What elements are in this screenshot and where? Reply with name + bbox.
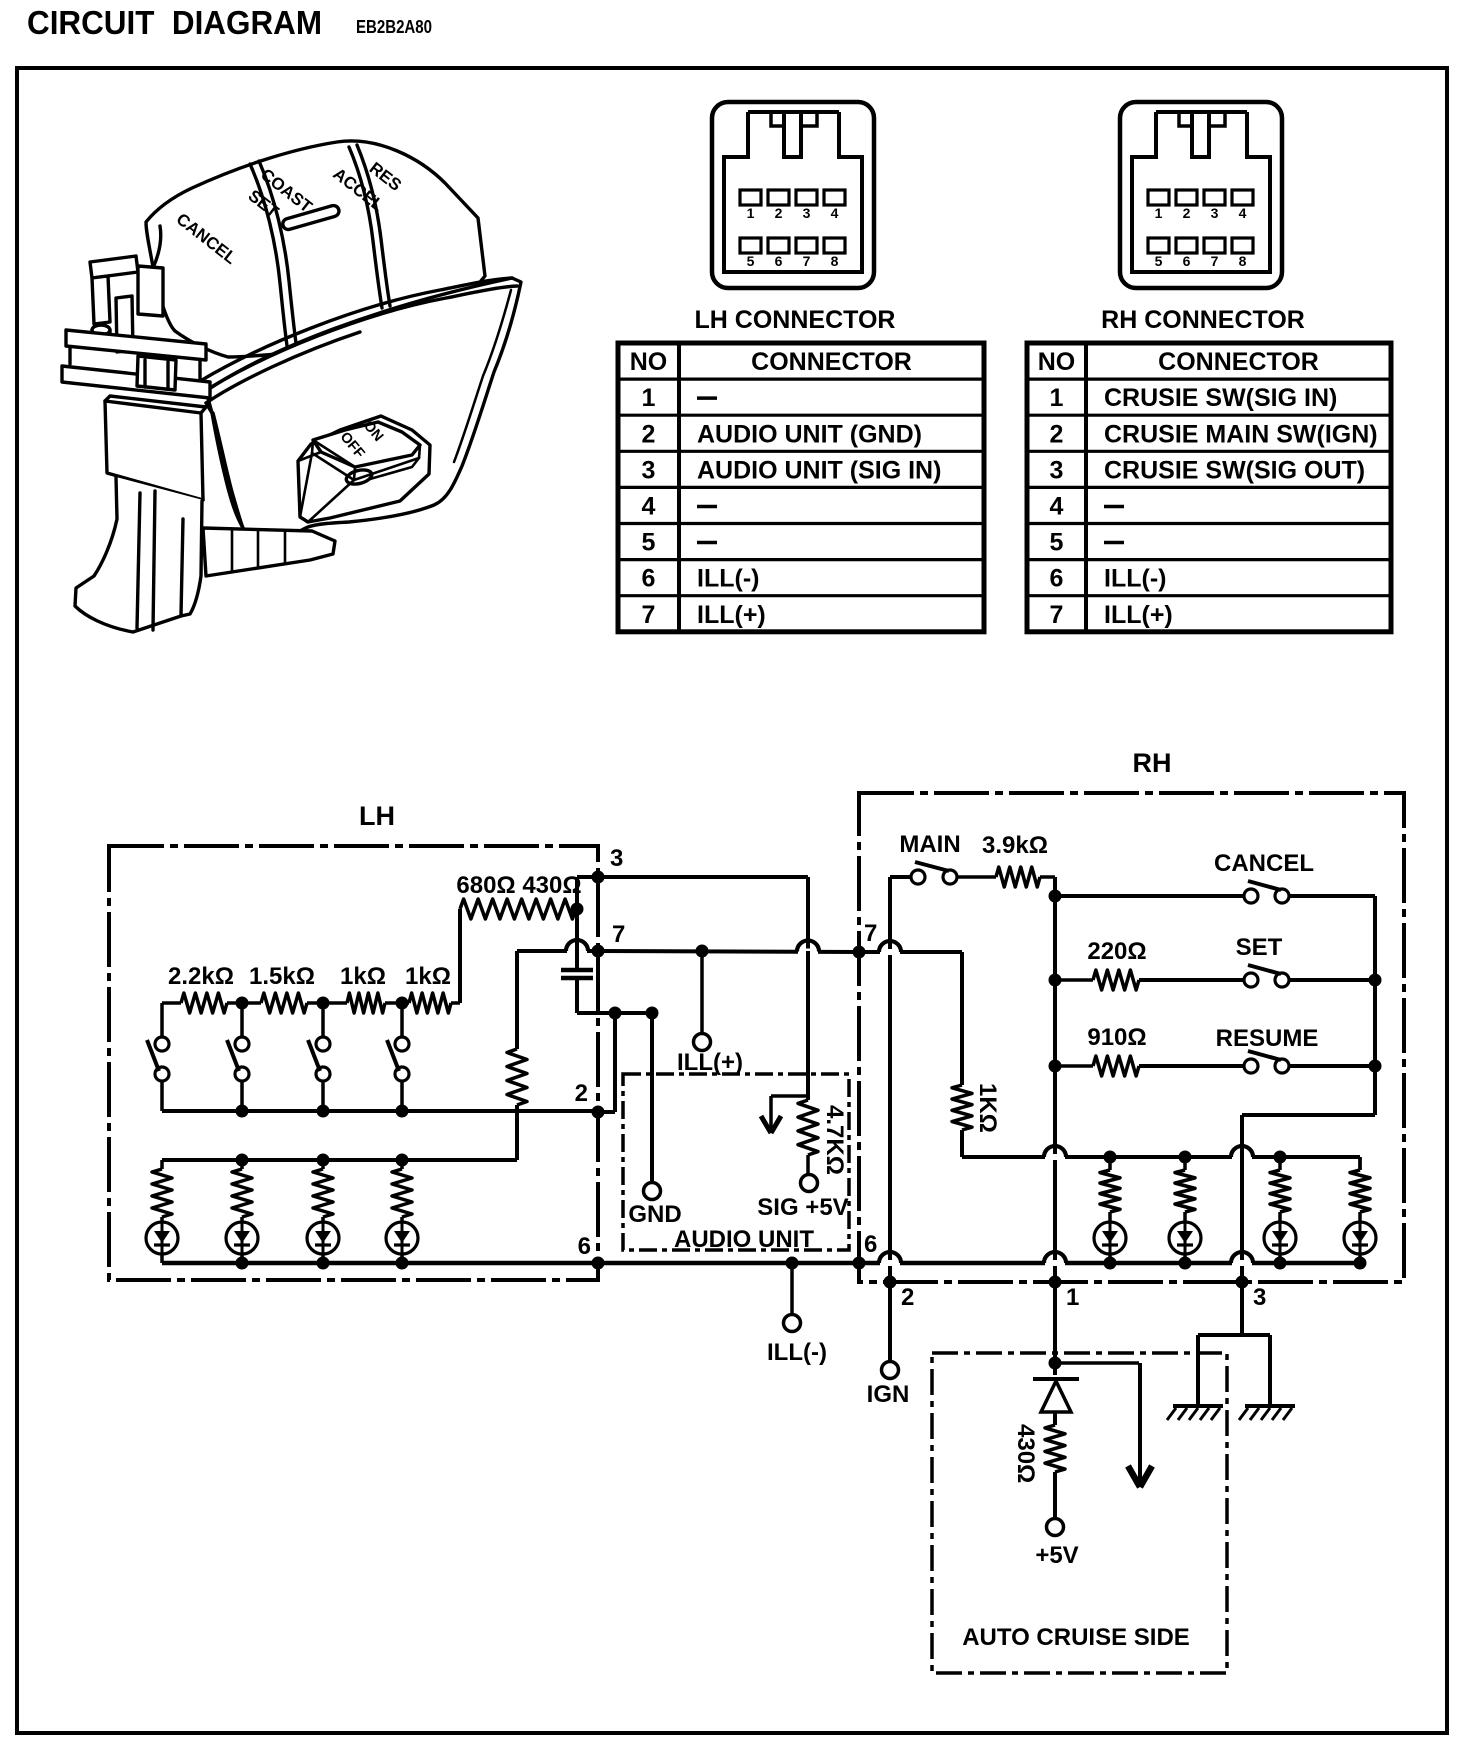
- svg-text:5: 5: [1155, 253, 1163, 269]
- svg-text:680Ω 430Ω: 680Ω 430Ω: [456, 872, 581, 899]
- svg-text:LH: LH: [359, 801, 395, 831]
- svg-text:6: 6: [1050, 565, 1064, 593]
- svg-text:4: 4: [642, 492, 656, 520]
- svg-text:SIG +5V: SIG +5V: [757, 1194, 848, 1221]
- svg-text:8: 8: [831, 253, 839, 269]
- svg-text:+5V: +5V: [1035, 1542, 1078, 1569]
- svg-text:1KΩ: 1KΩ: [974, 1083, 1001, 1133]
- svg-text:6: 6: [775, 253, 783, 269]
- svg-text:5: 5: [642, 529, 656, 557]
- svg-text:CIRCUIT DIAGRAM: CIRCUIT DIAGRAM: [27, 4, 322, 41]
- svg-text:3: 3: [1211, 205, 1219, 221]
- svg-text:2: 2: [642, 420, 656, 448]
- svg-text:CRUSIE SW(SIG IN): CRUSIE SW(SIG IN): [1104, 384, 1337, 412]
- svg-text:NO: NO: [1038, 348, 1076, 376]
- svg-text:7: 7: [612, 921, 625, 948]
- svg-text:3: 3: [1050, 456, 1064, 484]
- svg-text:430Ω: 430Ω: [1012, 1424, 1039, 1483]
- svg-text:ILL(+): ILL(+): [697, 601, 766, 629]
- svg-text:RH CONNECTOR: RH CONNECTOR: [1101, 306, 1305, 334]
- svg-text:2: 2: [1183, 205, 1191, 221]
- svg-text:220Ω: 220Ω: [1087, 938, 1146, 965]
- svg-text:7: 7: [864, 920, 877, 947]
- svg-text:ILL(-): ILL(-): [697, 565, 759, 593]
- svg-text:AUDIO UNIT: AUDIO UNIT: [674, 1226, 814, 1253]
- svg-text:MAIN: MAIN: [899, 831, 960, 858]
- svg-text:1kΩ: 1kΩ: [340, 963, 386, 990]
- svg-text:1: 1: [1066, 1284, 1079, 1311]
- svg-text:AUDIO UNIT (GND): AUDIO UNIT (GND): [697, 420, 922, 448]
- svg-text:AUTO CRUISE SIDE: AUTO CRUISE SIDE: [962, 1624, 1190, 1651]
- svg-text:GND: GND: [628, 1201, 681, 1228]
- svg-text:7: 7: [803, 253, 811, 269]
- svg-text:1.5kΩ: 1.5kΩ: [249, 963, 315, 990]
- svg-text:6: 6: [578, 1233, 591, 1260]
- svg-text:3: 3: [1253, 1284, 1266, 1311]
- svg-text:ILL(-): ILL(-): [767, 1339, 827, 1366]
- svg-text:4: 4: [831, 205, 839, 221]
- svg-text:ILL(+): ILL(+): [1104, 601, 1173, 629]
- svg-text:CONNECTOR: CONNECTOR: [1158, 348, 1319, 376]
- svg-text:2: 2: [901, 1284, 914, 1311]
- svg-text:2: 2: [775, 205, 783, 221]
- svg-text:1: 1: [747, 205, 755, 221]
- svg-text:CRUSIE MAIN SW(IGN): CRUSIE MAIN SW(IGN): [1104, 420, 1378, 448]
- svg-text:4.7KΩ: 4.7KΩ: [821, 1105, 848, 1175]
- svg-text:5: 5: [747, 253, 755, 269]
- svg-text:1: 1: [642, 384, 656, 412]
- svg-text:LH CONNECTOR: LH CONNECTOR: [695, 306, 896, 334]
- svg-text:EB2B2A80: EB2B2A80: [356, 17, 432, 37]
- svg-text:3.9kΩ: 3.9kΩ: [982, 832, 1048, 859]
- svg-text:1: 1: [1155, 205, 1163, 221]
- svg-text:2.2kΩ: 2.2kΩ: [168, 963, 234, 990]
- svg-text:5: 5: [1050, 529, 1064, 557]
- svg-text:CRUSIE SW(SIG OUT): CRUSIE SW(SIG OUT): [1104, 456, 1365, 484]
- svg-text:6: 6: [1183, 253, 1191, 269]
- svg-text:SET: SET: [1236, 934, 1283, 961]
- svg-text:7: 7: [1211, 253, 1219, 269]
- svg-text:CANCEL: CANCEL: [1214, 850, 1314, 877]
- svg-text:3: 3: [642, 456, 656, 484]
- svg-text:IGN: IGN: [867, 1381, 910, 1408]
- svg-text:2: 2: [575, 1080, 588, 1107]
- svg-text:7: 7: [642, 601, 656, 629]
- svg-text:NO: NO: [630, 348, 668, 376]
- svg-text:4: 4: [1050, 492, 1064, 520]
- svg-text:910Ω: 910Ω: [1087, 1024, 1146, 1051]
- svg-text:3: 3: [803, 205, 811, 221]
- svg-text:AUDIO UNIT (SIG IN): AUDIO UNIT (SIG IN): [697, 456, 941, 484]
- svg-text:RH: RH: [1133, 748, 1172, 778]
- svg-text:4: 4: [1239, 205, 1247, 221]
- svg-text:7: 7: [1050, 601, 1064, 629]
- svg-text:RESUME: RESUME: [1216, 1025, 1319, 1052]
- svg-text:3: 3: [610, 845, 623, 872]
- svg-text:1kΩ: 1kΩ: [405, 963, 451, 990]
- svg-text:8: 8: [1239, 253, 1247, 269]
- svg-text:ILL(-): ILL(-): [1104, 565, 1166, 593]
- svg-text:CONNECTOR: CONNECTOR: [751, 348, 912, 376]
- svg-text:ILL(+): ILL(+): [677, 1049, 743, 1076]
- svg-text:2: 2: [1050, 420, 1064, 448]
- svg-text:6: 6: [864, 1231, 877, 1258]
- svg-text:6: 6: [642, 565, 656, 593]
- svg-text:1: 1: [1050, 384, 1064, 412]
